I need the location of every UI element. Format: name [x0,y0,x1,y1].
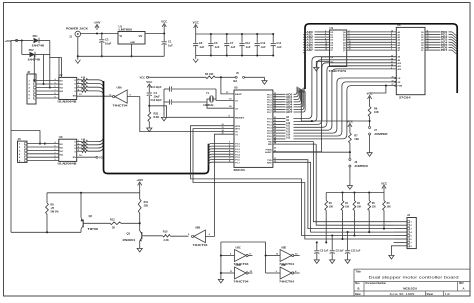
svg-text:LM7805: LM7805 [119,28,133,32]
wire EPROM O2 net PD2 [425,36,457,42]
capacitor C7 [224,33,236,57]
resistor R21 [148,112,159,125]
wire latch Q7 to EPROM A7 [347,49,397,51]
wire P2 route A8 [273,57,396,119]
wire bus tap P1 [209,158,235,163]
svg-text:J4: J4 [407,213,410,217]
wire to bus [88,143,104,148]
svg-text:Q3: Q3 [127,231,131,235]
svg-text:RXD: RXD [267,162,272,164]
wire latch Q6 to EPROM A6 [347,45,397,48]
svg-text:AD6: AD6 [307,47,314,50]
resistor R10 [144,231,189,242]
svg-text:VCC: VCC [347,120,354,124]
ground J7 [367,149,372,156]
resistor R12 [83,218,140,229]
svg-text:AD7: AD7 [286,111,293,114]
svg-text:1N4748: 1N4748 [32,44,45,48]
svg-text:ALE/P: ALE/P [265,151,272,154]
resistor RN3-4 [77,149,88,153]
wire latch D7 net AD7 [303,49,329,53]
wire EPROM O5 net PD5 [425,44,457,50]
capacitor C14 [271,33,283,57]
wire U2 EN to U8A [77,94,113,96]
svg-text:2.2K: 2.2K [164,239,169,242]
svg-text:PGM: PGM [398,86,403,88]
svg-text:8: 8 [55,156,56,158]
wire to bus [88,140,104,145]
node +24V input terminal [5,39,18,43]
svg-text:22: 22 [274,120,276,122]
svg-text:9: 9 [55,97,56,99]
svg-text:21: 21 [274,117,276,119]
voltage regulator U1 LM7805 [118,25,145,44]
svg-text:C5 1uF: C5 1uF [320,250,329,253]
svg-text:74HCT04: 74HCT04 [113,103,129,107]
ground bypass rail [193,56,198,63]
wire RD route [313,142,393,222]
svg-text:+24V: +24V [5,39,12,43]
connector J3 [18,137,28,163]
wire U1 gnd pin [130,44,132,57]
svg-text:4: 4 [78,149,79,152]
svg-text:2: 2 [78,143,79,145]
wire EPROM O3 net PD3 [425,38,457,44]
wire bus tap P1 [209,153,235,158]
svg-text:U8C: U8C [236,246,241,250]
wire latch Q0 to EPROM A0 [347,31,397,33]
wire U8E/U8F inputs [221,242,280,273]
svg-text:4: 4 [78,88,79,91]
inverter U8F 74HCT04 [276,263,298,283]
svg-text:POWER JACK: POWER JACK [66,27,88,31]
capacitor C8 [193,34,205,56]
svg-text:VCC: VCC [146,80,153,84]
wire EPROM O6 net PD6 [425,46,457,52]
jumper J7 [369,127,388,150]
svg-text:6: 6 [55,86,56,88]
svg-text:3: 3 [78,86,79,88]
svg-text:8: 8 [55,93,56,95]
svg-text:19: 19 [427,49,429,51]
svg-text:C1: C1 [168,40,172,44]
diode ZD1 [32,34,45,48]
svg-text:C6: C6 [214,41,218,45]
capacitor C13 [255,33,267,57]
svg-text:P1.7: P1.7 [235,162,240,164]
wire P2 route A11 [273,66,396,128]
wire P0.6 net AD6 [273,91,304,112]
wire P2 route A9 [273,60,396,122]
svg-text:4: 4 [55,141,56,144]
svg-text:R4 10K: R4 10K [205,73,214,76]
wire INT1 route [193,129,394,239]
wire P0.2 net AD2 [273,88,299,102]
svg-text:7: 7 [55,90,56,92]
svg-text:4: 4 [391,45,392,48]
svg-text:R6: R6 [374,107,378,111]
svg-text:PD7: PD7 [441,50,448,52]
wire bus tap P1 [209,147,235,152]
inverter U8A 74HCT04 [110,86,132,108]
ground latch OC [314,64,319,71]
wire PSEN net [273,151,350,153]
svg-text:P2.5: P2.5 [267,133,272,135]
svg-text:3: 3 [78,147,79,149]
wire latch OC to gnd [316,61,329,64]
svg-text:9: 9 [55,159,56,161]
svg-text:27: 27 [274,135,276,137]
svg-text:VCC: VCC [193,21,200,25]
svg-text:80C31: 80C31 [234,168,246,172]
ground C9 [330,257,335,264]
svg-text:A14: A14 [286,133,291,136]
capacitor C9 [330,234,345,256]
svg-text:P2.1: P2.1 [267,122,272,124]
svg-text:AD2: AD2 [307,36,314,39]
wire bus tap P1 [209,144,235,149]
svg-text:VCC: VCC [140,75,146,79]
wire latch Q2 to EPROM A2 [347,36,397,38]
latch U4 74HCT373 [329,26,347,73]
svg-text:5W 5%: 5W 5% [51,210,60,213]
svg-text:A: A [463,287,465,291]
svg-text:MCB.SCH: MCB.SCH [403,286,417,290]
ground C5 [314,257,319,264]
svg-text:2.2K: 2.2K [81,145,86,147]
svg-text:U6: U6 [397,23,401,27]
svg-text:74HCT373: 74HCT373 [329,69,347,73]
resistor R9 power [46,192,140,233]
svg-text:VI: VI [120,34,123,38]
svg-text:B: B [358,286,360,290]
svg-text:27C64: 27C64 [399,96,411,100]
svg-text:1uF: 1uF [168,43,173,47]
wire [81,32,118,34]
svg-text:EA/VP: EA/VP [235,93,242,96]
wire [50,58,62,78]
wire U1 output [145,32,165,34]
svg-text:JUMPER: JUMPER [374,132,388,136]
jumper J6 [349,159,368,183]
svg-text:18: 18 [325,49,327,51]
svg-text:AD3: AD3 [307,39,314,42]
wire latch D2 net AD2 [303,36,329,40]
wire latch LE from ALE [273,57,330,152]
resistor R11 [138,199,148,231]
wire to bus [88,91,104,96]
wire latch Q4 to EPROM A4 [347,41,397,43]
wire P0.4 net AD4 [273,89,302,106]
svg-text:Dual stepper motor controller: Dual stepper motor controller board [369,276,459,280]
svg-text:Sheet: Sheet [427,293,434,296]
wire U8E out stub [293,255,299,257]
svg-text:10uF: 10uF [154,94,161,98]
driver U2 ULN2064B [58,73,77,103]
wire caps to gnd [163,89,165,114]
wire U8C/U8D inputs [220,242,235,276]
wire latch D1 net AD1 [303,32,329,37]
svg-text:1 of: 1 of [445,293,450,296]
wire U8F out stub [293,272,299,274]
svg-text:AD4: AD4 [307,41,314,44]
svg-text:16: 16 [274,142,276,144]
wire bus tap P1 [209,161,235,166]
ground crystal caps [161,114,166,121]
svg-text:AD5: AD5 [307,44,314,47]
svg-text:P1.5: P1.5 [235,157,240,159]
svg-text:C12: C12 [245,41,250,45]
resistor RN2-2 [77,81,88,85]
wire P2 route OE [273,82,396,137]
resistor R7 [349,133,360,158]
wire P0.5 net AD5 [273,90,303,109]
EPROM U6 27C64 [391,23,425,99]
svg-text:VCC: VCC [161,20,168,24]
wire [35,54,50,56]
connector J2 [27,70,36,104]
svg-text:C9 1uF: C9 1uF [336,250,345,253]
svg-text:AD7: AD7 [307,49,314,52]
svg-text:2: 2 [78,82,79,84]
capacitor C15 [345,231,361,256]
resistor R3 [383,193,392,230]
wire [39,41,50,55]
svg-text:.1uF: .1uF [230,45,236,49]
svg-text:VCC: VCC [381,181,388,185]
resistor RN2-3 [77,85,88,89]
wire latch Q5 to EPROM A5 [347,44,397,46]
svg-text:U8B: U8B [195,226,200,230]
driver U3 ULN2064B [58,135,77,166]
capacitor C10 [151,99,208,104]
svg-text:RESET: RESET [235,117,245,119]
svg-text:/EA: /EA [233,80,237,83]
resistor RN2-1 [77,77,88,81]
wire [33,55,35,82]
svg-text:VO: VO [139,34,143,38]
svg-text:6: 6 [55,149,56,151]
wire latch D4 net AD4 [303,41,329,45]
wire J4 gnd pin [391,246,393,252]
svg-text:10K: 10K [374,110,379,114]
wire bus tap P1 [209,155,235,160]
wire bottom rail [78,55,164,57]
svg-text:.1uF: .1uF [214,45,220,49]
ground C15 [345,257,350,264]
svg-text:A12: A12 [286,128,291,131]
svg-text:Date:: Date: [355,293,361,296]
wire latch D0 net AD0 [303,31,329,35]
wire jack ground [77,37,79,58]
capacitor C6 [208,33,220,57]
svg-text:8.2K: 8.2K [154,115,160,119]
svg-text:U8A: U8A [117,86,122,90]
svg-text:P2.6: P2.6 [267,136,272,138]
power VCC arrow bypass rail [193,21,200,34]
wire EPROM O0 net PD0 [425,31,457,37]
wire P0.0 net AD0 [273,87,297,97]
svg-text:2.2K: 2.2K [81,77,86,79]
svg-text:26: 26 [274,132,276,134]
wire EPROM O1 net PD1 [425,33,457,39]
svg-text:74HCT04: 74HCT04 [193,243,209,247]
wire X2 [207,99,234,108]
svg-text:1: 1 [78,140,79,142]
svg-text:2.2K: 2.2K [81,139,86,141]
svg-text:P2.4: P2.4 [267,129,272,132]
wire R6 net [301,92,369,122]
inverter U8C 74HCT04 [230,246,252,266]
capacitor C4 [147,91,160,112]
wire [18,39,33,41]
svg-text:U5: U5 [234,86,238,90]
capacitor C2 [99,34,111,58]
power VCC arrow R6 [367,92,374,107]
svg-text:P1.6: P1.6 [235,160,240,162]
svg-text:Document Number: Document Number [366,282,387,285]
svg-text:A11: A11 [286,125,291,128]
svg-text:J2: J2 [27,70,31,74]
svg-text:5: 5 [55,146,56,148]
svg-text:J1: J1 [69,35,73,39]
svg-text:EN: EN [73,157,76,159]
wire EPROM O4 net PD4 [425,41,457,47]
svg-text:32: 32 [274,111,276,113]
resistor R4 10K pullup [140,73,236,80]
resistor R2 [325,193,334,244]
svg-text:A15: A15 [286,136,291,139]
resistor RN3-1 [77,139,88,143]
wire P2 route A10 [273,63,396,125]
wire to bus [88,137,104,142]
power VCC arrow J4 bank [381,181,388,192]
wire U8B to T1 [205,134,234,236]
svg-text:AD1: AD1 [307,34,314,37]
svg-text:R21: R21 [154,112,159,116]
svg-text:2N3904: 2N3904 [123,238,136,242]
wire U3 EN to VCC [77,154,105,159]
wire [49,55,51,89]
svg-text:C13: C13 [260,41,265,45]
svg-text:P1.4: P1.4 [235,153,240,156]
wire bank top rail [326,191,384,193]
resistor RN2-4 [77,88,88,92]
svg-text:3: 3 [391,49,392,51]
wire bus tap P1 [209,149,235,155]
wire latch D5 net AD5 [303,43,329,48]
svg-text:ULN2064B: ULN2064B [58,162,77,166]
svg-text:AD0: AD0 [307,31,314,34]
wire U8D out stub [248,272,253,274]
svg-text:4: 4 [325,32,326,35]
inverter U8E 74HCT04 [276,246,299,266]
svg-text:23: 23 [274,123,276,125]
svg-text:1: 1 [78,78,79,80]
wire PGM to VCC [370,85,387,93]
wire latch Q3 to EPROM A3 [347,38,397,40]
svg-text:+24V: +24V [94,21,101,25]
svg-text:U8F: U8F [281,263,286,267]
svg-text:2.2K: 2.2K [81,81,86,83]
svg-text:P1.0: P1.0 [235,144,240,146]
svg-text:AD5: AD5 [286,106,293,109]
svg-text:10K: 10K [345,206,350,208]
wire to bus [88,84,104,89]
svg-text:2K: 2K [112,226,115,229]
svg-text:J3: J3 [18,137,22,141]
svg-text:P0.7: P0.7 [267,112,272,114]
svg-text:2.2K: 2.2K [81,88,86,90]
diode ZD2 [28,48,41,62]
resistor R5 [368,193,377,234]
svg-text:June 30, 1999: June 30, 1999 [389,292,415,296]
resistor RN3-2 [77,142,88,146]
jumper J5 [233,72,265,83]
svg-text:7: 7 [55,152,56,154]
svg-text:.1uF: .1uF [199,45,205,49]
svg-text:+24V: +24V [136,178,143,182]
wire P0.1 net AD1 [273,87,298,99]
wire WR route [316,144,393,225]
wire RD [273,140,314,142]
svg-text:10uF: 10uF [105,41,112,45]
svg-text:U2: U2 [59,73,63,77]
svg-text:JUMPER: JUMPER [354,164,368,168]
svg-text:R12: R12 [110,218,115,221]
svg-text:.1uF: .1uF [245,45,251,49]
wire J4 pin stubs [394,222,408,246]
ground J5 [262,77,267,84]
svg-text:C4: C4 [154,91,158,95]
wire bottom rail [11,231,81,233]
bus AD0-7/PD0-7 around EPROM [297,24,457,93]
svg-text:10K: 10K [329,206,334,208]
svg-text:U3: U3 [59,135,63,139]
wire RXD route [273,162,394,232]
ground J6 [347,182,352,189]
ground J4 [389,252,394,259]
wire to bus [88,146,104,151]
power +24V arrow [94,21,101,30]
ground Q3 [137,245,142,252]
svg-text:GND: GND [130,42,135,44]
wire [22,41,30,55]
crystal Y1 10MHz [203,92,214,107]
wire bus tap P1 [209,142,235,147]
svg-text:2.2K: 2.2K [81,142,86,144]
svg-text:74HCT04: 74HCT04 [279,280,295,284]
svg-text:EN: EN [73,95,76,97]
title block [354,269,470,296]
svg-text:10K: 10K [354,137,359,141]
svg-text:4: 4 [55,78,56,81]
svg-text:TIP30: TIP30 [88,227,99,231]
wire +24V branch to J3 [11,130,46,144]
svg-text:U8E: U8E [281,246,286,250]
capacitor C1 [162,34,174,57]
wire J2 to U2 [36,78,59,99]
wire +24V rail down left edge [11,41,22,233]
svg-text:Size: Size [355,283,360,285]
capacitor C11 [151,86,217,99]
resistor R6 [368,107,379,127]
inverter U8B 74HCT04 [188,226,211,247]
power VCC arrow [161,20,168,34]
ground [75,56,80,63]
svg-text:R11: R11 [144,201,149,204]
resistor RN3-3 [77,145,88,149]
